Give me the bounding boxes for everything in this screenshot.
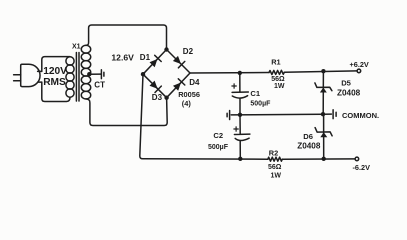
svg-text:500µF: 500µF	[208, 144, 229, 151]
svg-text:1W: 1W	[271, 172, 282, 179]
svg-text:R1: R1	[271, 57, 280, 66]
svg-text:D1: D1	[140, 53, 151, 62]
svg-text:D2: D2	[183, 47, 194, 56]
svg-text:R0056: R0056	[178, 90, 200, 99]
svg-text:(4): (4)	[182, 99, 192, 108]
svg-text:+6.2V: +6.2V	[350, 60, 369, 69]
svg-text:120V: 120V	[43, 66, 67, 77]
svg-text:CT: CT	[94, 80, 105, 89]
svg-text:56Ω: 56Ω	[268, 164, 282, 171]
svg-text:R2: R2	[269, 148, 278, 157]
svg-text:-6.2V: -6.2V	[353, 163, 371, 172]
svg-text:C2: C2	[213, 131, 223, 140]
svg-text:500µF: 500µF	[250, 100, 271, 107]
svg-text:12.6V: 12.6V	[111, 52, 134, 62]
svg-text:D6: D6	[303, 132, 313, 141]
svg-text:1W: 1W	[274, 83, 285, 90]
svg-text:COMMON.: COMMON.	[342, 111, 379, 120]
svg-text:D3: D3	[152, 93, 163, 102]
svg-text:RMS: RMS	[43, 77, 66, 88]
svg-text:Z0408: Z0408	[297, 141, 321, 150]
svg-text:C1: C1	[250, 89, 260, 98]
svg-text:Z0408: Z0408	[337, 89, 361, 98]
svg-text:D5: D5	[341, 79, 351, 88]
svg-text:56Ω: 56Ω	[271, 76, 285, 83]
svg-text:D4: D4	[189, 78, 200, 87]
svg-text:X1: X1	[72, 44, 81, 51]
